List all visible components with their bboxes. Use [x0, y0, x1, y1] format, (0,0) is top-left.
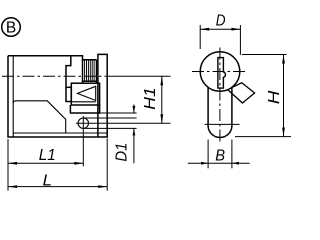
- svg-text:L1: L1: [39, 147, 56, 164]
- svg-text:H1: H1: [142, 87, 159, 110]
- svg-text:L: L: [43, 172, 52, 189]
- svg-text:D: D: [216, 13, 226, 30]
- svg-text:B: B: [6, 20, 16, 37]
- svg-text:D1: D1: [114, 143, 131, 162]
- svg-text:H: H: [266, 90, 283, 104]
- svg-text:B: B: [215, 148, 225, 165]
